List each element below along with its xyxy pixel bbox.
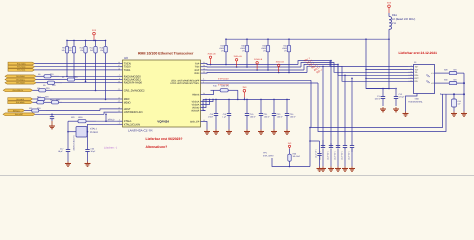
wire R12 to net row bbox=[85, 59, 87, 81]
ground under C17 bbox=[67, 162, 69, 164]
ic U0 left pin 12 MDC bbox=[118, 98, 123, 100]
ground under C23 bbox=[273, 130, 275, 132]
svg-text:10 pF 50 V: 10 pF 50 V bbox=[341, 150, 344, 160]
wire jack shield to ground bbox=[406, 94, 418, 112]
capacitor C18 1 µF decoupling bbox=[228, 99, 230, 113]
wire TP net up bbox=[309, 128, 311, 167]
wire R10 to net row bbox=[73, 59, 75, 79]
svg-text:R7: R7 bbox=[62, 76, 64, 79]
svg-text:2: 2 bbox=[203, 80, 204, 83]
port PHY-RXD0 bbox=[5, 75, 36, 78]
wire analog 3V3 bus from ferrite bbox=[226, 38, 389, 40]
svg-text:3: 3 bbox=[203, 78, 204, 81]
capacitor C25 100 nF decoupling bbox=[286, 99, 288, 113]
ground under C20 bbox=[87, 162, 89, 164]
ic U0 left pin 10 RXER/PHYAD0 bbox=[118, 82, 123, 84]
wire TXP row bbox=[206, 64, 299, 65]
svg-text:PHY-nRST: PHY-nRST bbox=[15, 113, 23, 116]
capacitor C17 18pF bbox=[67, 147, 69, 150]
resistor R22 49R9 termination bbox=[267, 39, 269, 45]
ic U0 left pin 13 MDIO bbox=[118, 101, 123, 103]
wire pull-up bank bus bbox=[67, 39, 106, 41]
ground right of C29 bbox=[463, 112, 465, 114]
wire TXD1 to U0 bbox=[35, 69, 118, 71]
ground under C19 bbox=[246, 130, 248, 132]
svg-text:Alternativen?: Alternativen? bbox=[146, 145, 168, 149]
svg-text:RBIAS: RBIAS bbox=[192, 94, 199, 97]
wire R16 to net row bbox=[105, 59, 107, 99]
svg-text:PHY-RXER: PHY-RXER bbox=[16, 82, 25, 85]
svg-text:18 pF: 18 pF bbox=[91, 150, 97, 153]
svg-text:VDD2A: VDD2A bbox=[192, 104, 200, 107]
resistor R19 49R9 termination bbox=[225, 39, 227, 45]
resistor R26 10k DNP bbox=[289, 149, 291, 154]
svg-text:20: 20 bbox=[203, 64, 205, 67]
wire TXN row bbox=[206, 66, 302, 68]
svg-text:18: 18 bbox=[118, 67, 120, 70]
ic U0 right pin 19 RXP bbox=[201, 69, 206, 71]
wire R26 to TP net bbox=[289, 166, 291, 168]
capacitor C29 1nF 2kV bbox=[453, 94, 455, 99]
ic U0 left pin 11 CRS_DV/MODE2 bbox=[118, 89, 123, 91]
svg-text:17: 17 bbox=[118, 64, 120, 67]
svg-text:470 pF: 470 pF bbox=[399, 96, 406, 99]
resistor R15 12k1 1% RBIAS bbox=[211, 89, 221, 91]
ic U0 right pin 6 VDDCR bbox=[201, 110, 206, 112]
ic U0 right pin 2 LED2 nINT/nPME/nEVTSEL bbox=[201, 82, 206, 84]
svg-text:U0: U0 bbox=[124, 56, 128, 60]
svg-text:2 A: 2 A bbox=[392, 22, 396, 25]
wire VDD bus bbox=[203, 98, 290, 100]
wire MDC jog to U0 bbox=[50, 98, 118, 100]
ground under C25 bbox=[286, 130, 288, 132]
port PHY-RXER bbox=[5, 81, 36, 84]
wire xtal row to U0 XTAL1 bbox=[96, 120, 118, 122]
resistor R8 10k pull-up bbox=[66, 40, 68, 46]
ic U0 right pin 21 TXP bbox=[201, 63, 206, 65]
ground jack shield bbox=[405, 112, 407, 114]
wire LED2 loop down-right-up bbox=[318, 83, 446, 132]
svg-text:REFCLK: REFCLK bbox=[13, 109, 21, 112]
connector J4 led arrows bbox=[426, 75, 430, 78]
ic U0 right pin 20 TXN bbox=[201, 66, 206, 68]
connector J4 pin 3 TD- bbox=[408, 71, 414, 73]
svg-text:PHY-TXD0: PHY-TXD0 bbox=[17, 66, 25, 69]
wire nRST jog to U0 nINT pin bbox=[104, 112, 118, 114]
ground under C29 bbox=[453, 112, 455, 114]
wire R22 to line bbox=[267, 58, 269, 70]
svg-text:3V3A-LB: 3V3A-LB bbox=[276, 61, 285, 64]
svg-text:R30: R30 bbox=[444, 79, 447, 82]
svg-text:LED2 nINT/nPME/nEVTSEL: LED2 nINT/nPME/nEVTSEL bbox=[170, 82, 200, 85]
resistor R12 10k pull-up bbox=[85, 40, 87, 46]
wire GND_EP down bbox=[206, 122, 208, 130]
wire VDDIO to bus bbox=[205, 99, 208, 107]
wire TXN to jack TD- bbox=[301, 63, 408, 73]
svg-text:RMII 10/100 Ethernet Transceiv: RMII 10/100 Ethernet Transceiver bbox=[138, 51, 194, 55]
svg-text:VDDCR: VDDCR bbox=[191, 110, 200, 113]
wire MDIO jog to U0 bbox=[62, 101, 118, 103]
svg-text:100 nF: 100 nF bbox=[375, 98, 382, 101]
connector J4 body bbox=[414, 65, 435, 94]
ferrite/resistor on MDIO bbox=[48, 101, 52, 103]
wire R8 to net row bbox=[66, 59, 68, 76]
svg-text:10k: 10k bbox=[100, 49, 103, 52]
ground under cap bank 1 bbox=[322, 149, 324, 167]
svg-text:L0 (Bead 100 MHz): L0 (Bead 100 MHz) bbox=[392, 18, 415, 21]
ground under C21 bbox=[260, 130, 262, 132]
svg-text:ETH-LED1: ETH-LED1 bbox=[218, 78, 229, 81]
svg-text:10: 10 bbox=[118, 80, 120, 83]
svg-text:100 nF: 100 nF bbox=[264, 116, 271, 119]
wire TXD0 to U0 bbox=[35, 66, 118, 68]
svg-text:GND_EP: GND_EP bbox=[190, 121, 200, 124]
svg-text:16: 16 bbox=[118, 61, 120, 64]
connector J4 pin 4 RD+ bbox=[408, 74, 414, 76]
resistor R5 33R series RXD0 bbox=[36, 75, 44, 77]
wire TXP to jack TD+ bbox=[298, 61, 408, 67]
svg-text:15: 15 bbox=[118, 106, 120, 109]
svg-text:12k1 1%: 12k1 1% bbox=[221, 85, 229, 88]
svg-text:22: 22 bbox=[203, 71, 205, 74]
capacitor C6 10pF on TD- bbox=[330, 61, 332, 146]
resistor R24 49R9 termination bbox=[288, 39, 290, 45]
wire TCT center tap bbox=[366, 68, 408, 70]
svg-text:PHY-MDIO: PHY-MDIO bbox=[16, 101, 25, 104]
svg-text:PHY-RXD1: PHY-RXD1 bbox=[16, 78, 24, 81]
svg-text:10 pF 50 V: 10 pF 50 V bbox=[327, 150, 330, 160]
wire crystal right electrode bbox=[86, 131, 89, 133]
wire analog node down bbox=[388, 39, 390, 88]
port PHY-MDC bbox=[8, 98, 33, 101]
wire TP1 net bbox=[272, 158, 310, 167]
svg-text:R17: R17 bbox=[50, 99, 53, 102]
svg-text:RXER/PHYAD0: RXER/PHYAD0 bbox=[124, 82, 143, 85]
capacitor C23 100 nF decoupling bbox=[273, 99, 275, 113]
capacitor C20 18pF bbox=[87, 147, 89, 150]
svg-text:PHY-MDC: PHY-MDC bbox=[16, 98, 25, 101]
ground under C15 bbox=[51, 124, 53, 126]
svg-text:8: 8 bbox=[119, 77, 120, 80]
wire R15 down to VDD bus bbox=[237, 90, 239, 99]
capacitor C16 470nF decoupling bbox=[215, 99, 217, 113]
wire VDDCR to bus bbox=[203, 99, 206, 110]
svg-text:25 MHz: 25 MHz bbox=[90, 131, 99, 134]
ground under C27 bbox=[319, 167, 321, 169]
wire REFCLK down to xtal row bbox=[105, 114, 107, 121]
svg-text:3V3A-LB: 3V3A-LB bbox=[254, 58, 263, 61]
svg-text:TXD1: TXD1 bbox=[124, 69, 131, 72]
svg-text:RXN: RXN bbox=[194, 72, 199, 75]
svg-text:TXP: TXP bbox=[195, 63, 200, 66]
capacitor C9 10pF spare bbox=[351, 78, 353, 145]
port PHY-RXD1 bbox=[5, 78, 36, 81]
svg-text:FB1: FB1 bbox=[392, 14, 397, 17]
ground under cap bank 5 bbox=[351, 149, 353, 167]
svg-text:VDD1A: VDD1A bbox=[192, 101, 200, 104]
svg-text:PHY-CRS-DV: PHY-CRS-DV bbox=[13, 89, 24, 92]
svg-text:XTAL2/CLKIN: XTAL2/CLKIN bbox=[124, 123, 140, 126]
wire LED2 row bbox=[206, 82, 319, 84]
svg-text:10k: 10k bbox=[62, 49, 65, 52]
svg-text:10 µF 16 V: 10 µF 16 V bbox=[315, 148, 318, 158]
svg-text:10 pF 50 V: 10 pF 50 V bbox=[334, 150, 337, 160]
ic U0 right pin 3 LED1 nINT/nPME/REGOFF bbox=[201, 79, 206, 81]
wire analog feed down bbox=[366, 39, 395, 88]
svg-text:11: 11 bbox=[118, 88, 120, 91]
svg-text:MDIO: MDIO bbox=[124, 101, 131, 104]
capacitor C27 10uF bbox=[319, 141, 321, 154]
junction power flag on bank bus bbox=[93, 40, 95, 42]
wire R20 to line bbox=[246, 58, 248, 67]
wire R24 to line bbox=[288, 58, 290, 73]
wire RXD1 segments bbox=[36, 79, 60, 81]
ic U0 right pin 1 VDD2A bbox=[201, 104, 206, 106]
ic U0 left pin 18 TXD1 bbox=[118, 69, 123, 71]
sheet frame bottom edge bbox=[0, 175, 474, 177]
wire bob-smith vertical bbox=[463, 73, 465, 111]
svg-text:19: 19 bbox=[203, 67, 205, 70]
svg-text:RXP: RXP bbox=[195, 69, 200, 72]
resistor R30 75R bbox=[442, 82, 449, 84]
port PHY-TXD0 bbox=[8, 65, 35, 68]
port PHY-TXEN bbox=[8, 62, 35, 65]
resistor R10 10k pull-up bbox=[73, 40, 75, 46]
capacitor C15 100nF on nRST row bbox=[51, 114, 53, 116]
svg-text:R9: R9 bbox=[43, 84, 45, 87]
resistor R13 33R series MDC bbox=[33, 98, 38, 100]
svg-text:R11: R11 bbox=[37, 87, 40, 90]
ic U0 right pin 22 RXN bbox=[201, 72, 206, 74]
svg-text:LAN8742A-CZ-TR: LAN8742A-CZ-TR bbox=[128, 128, 153, 132]
wire R19 to line bbox=[225, 58, 227, 65]
resistor R28 75R bbox=[442, 72, 449, 74]
wire RXP to jack RD+ bbox=[304, 64, 408, 75]
svg-text:CRS_DV/MODE2: CRS_DV/MODE2 bbox=[124, 89, 145, 92]
wire XTAL2 pin to crystal right bbox=[88, 124, 118, 147]
connector J4 led pin L1 bbox=[435, 72, 443, 74]
ground under C16 bbox=[215, 130, 217, 132]
svg-text:ABM8-25-B2X-T3: ABM8-25-B2X-T3 bbox=[73, 136, 76, 151]
svg-text:21: 21 bbox=[203, 61, 205, 64]
capacitor C11 100nF analog bbox=[382, 89, 384, 97]
svg-text:13: 13 bbox=[118, 100, 120, 103]
capacitor C5 10pF on TD+ bbox=[322, 66, 324, 145]
svg-text:LED1 nINT/nPME/REGOFF: LED1 nINT/nPME/REGOFF bbox=[171, 79, 200, 82]
wire RXER segments bbox=[36, 82, 40, 84]
connector J4 pin 5 RCT bbox=[408, 77, 414, 79]
wire REFCLK row bbox=[46, 110, 100, 112]
svg-text:10k DNP: 10k DNP bbox=[293, 155, 301, 158]
svg-text:2k2: 2k2 bbox=[90, 49, 93, 52]
svg-text:100R: 100R bbox=[78, 116, 83, 119]
ic U0 left pin 7 RXD0/MODE0 bbox=[118, 75, 123, 77]
ground under C13 bbox=[395, 107, 397, 109]
wire RXN row bbox=[206, 72, 308, 75]
resistor R14 2k2 pull-up bbox=[95, 40, 97, 46]
wire R14 to net row bbox=[95, 59, 97, 91]
capacitor C13 470pF analog bbox=[395, 89, 397, 97]
svg-text:5: 5 bbox=[119, 119, 120, 122]
svg-text:Löschen :-): Löschen :-) bbox=[104, 147, 117, 150]
capacitor C21 100 nF decoupling bbox=[260, 99, 262, 113]
port PHY-TXD1 bbox=[8, 69, 35, 72]
svg-text:VDDIO: VDDIO bbox=[192, 107, 199, 110]
ground under cap bank 4 bbox=[344, 149, 346, 167]
wire RCT center tap bbox=[366, 77, 408, 79]
ferrite bead FB1 coil bbox=[388, 13, 390, 17]
svg-text:R13: R13 bbox=[37, 96, 40, 99]
wire LED1 row bbox=[206, 79, 312, 81]
svg-text:1%: 1% bbox=[242, 49, 245, 52]
svg-text:10k: 10k bbox=[69, 49, 72, 52]
svg-text:1%: 1% bbox=[284, 49, 287, 52]
ground GND_EP bbox=[206, 130, 208, 132]
ic U0 left pin 14 nINT/REFCLKO bbox=[118, 111, 123, 113]
wire RXP row bbox=[206, 69, 305, 71]
svg-text:R21: R21 bbox=[29, 107, 32, 110]
ic U0 right pin 24 RBIAS bbox=[201, 94, 206, 96]
wire TXEN to U0 bbox=[35, 63, 118, 65]
svg-text:RD-: RD- bbox=[415, 80, 419, 83]
svg-text:PHY-TXD1: PHY-TXD1 bbox=[17, 69, 25, 72]
svg-text:R23: R23 bbox=[71, 116, 74, 119]
svg-text:1%: 1% bbox=[221, 49, 224, 52]
connector J4 pin 2 TCT bbox=[408, 68, 414, 70]
ic U0 right pin 25 GND_EP bbox=[201, 121, 206, 123]
wire RBIAS from U0 bbox=[206, 90, 214, 94]
resistor R23 100R on xtal row bbox=[68, 120, 78, 122]
svg-text:100 nF: 100 nF bbox=[250, 116, 257, 119]
connector J4 pin 6 RD- bbox=[408, 80, 414, 82]
resistor R7 33R series RXD1 bbox=[60, 79, 68, 81]
resistor R11 33R series CRS_DV bbox=[33, 89, 39, 91]
wire nRST row bbox=[35, 113, 104, 115]
wire CRS_DV jog to U0 bbox=[52, 89, 118, 91]
svg-text:L1: L1 bbox=[431, 72, 433, 75]
resistor R21 33R series REFCLK bbox=[25, 110, 32, 112]
svg-text:10k: 10k bbox=[80, 49, 83, 52]
wire crystal left electrode bbox=[68, 131, 76, 133]
svg-text:25: 25 bbox=[203, 119, 205, 122]
svg-text:14: 14 bbox=[118, 110, 120, 113]
svg-text:Lieferbar erst 06/2023?: Lieferbar erst 06/2023? bbox=[146, 137, 183, 141]
port PHY-REFCLK bbox=[8, 109, 25, 112]
resistor R16 10k pull-up bbox=[105, 40, 107, 46]
wire REFCLK jog to U0 nRST pin bbox=[100, 109, 118, 111]
wire RXN to jack RD- bbox=[307, 66, 408, 81]
svg-text:7: 7 bbox=[119, 74, 120, 77]
svg-text:TXN: TXN bbox=[195, 66, 200, 69]
svg-text:XTAL1: XTAL1 bbox=[90, 127, 98, 130]
svg-text:10 pF 50 V: 10 pF 50 V bbox=[348, 150, 351, 160]
ic U0 left pin 4 XTAL2/CLKIN bbox=[118, 123, 123, 125]
svg-text:100 nF: 100 nF bbox=[290, 116, 297, 119]
svg-text:1%: 1% bbox=[263, 49, 266, 52]
ic U0 left pin 15 nRST bbox=[118, 108, 123, 110]
connector J4 pin 1 TD+ bbox=[408, 65, 414, 67]
wire LED1 loop down-right-up bbox=[311, 80, 443, 127]
resistor R20 49R9 termination bbox=[246, 39, 248, 45]
capacitor C19 100 nF decoupling bbox=[246, 99, 248, 113]
ground under C18 bbox=[228, 130, 230, 132]
wire VDD2A to bus bbox=[206, 99, 210, 104]
svg-text:TD-: TD- bbox=[415, 71, 419, 74]
wire xtal row down to crystal bbox=[67, 121, 69, 147]
svg-text:PHY-RXD0: PHY-RXD0 bbox=[16, 75, 24, 78]
port PHY-MDIO bbox=[8, 101, 33, 104]
ic U0 left pin 17 TXD0 bbox=[118, 66, 123, 68]
svg-text:TRJK0926HENL: TRJK0926HENL bbox=[408, 101, 424, 104]
svg-text:3V3A-LB: 3V3A-LB bbox=[207, 53, 216, 56]
svg-text:12: 12 bbox=[118, 96, 120, 99]
ic U0 right pin 23 VDD1A bbox=[201, 101, 206, 103]
svg-text:R28: R28 bbox=[444, 69, 447, 72]
svg-text:ETH_nRST: ETH_nRST bbox=[263, 155, 274, 158]
port PHY-CRS-DV bbox=[3, 89, 32, 92]
ground under C11 bbox=[382, 107, 384, 109]
ic U0 left pin 8 RXD1/MODE1 bbox=[118, 79, 123, 81]
wire ferrite to analog bus bbox=[388, 29, 390, 39]
svg-text:470nF: 470nF bbox=[208, 116, 214, 119]
svg-text:3V3A-LB: 3V3A-LB bbox=[234, 55, 243, 58]
svg-text:PHY-TXEN: PHY-TXEN bbox=[17, 62, 26, 65]
wire VDD1A to bus bbox=[206, 99, 214, 101]
svg-text:24: 24 bbox=[203, 92, 205, 95]
wire RXD0 to U0 bbox=[59, 75, 118, 77]
svg-text:nINT/REFCLKO: nINT/REFCLKO bbox=[124, 111, 143, 114]
capacitor C8 10pF on RD- bbox=[344, 75, 346, 145]
ic U0 left pin 16 TXEN bbox=[118, 63, 123, 65]
ic U0 left pin 5 XTAL1 bbox=[118, 120, 123, 122]
ground under cap bank 2 bbox=[330, 149, 332, 167]
ic U0 right pin 9 VDDIO bbox=[201, 107, 206, 109]
crystal Y1 25MHz body bbox=[76, 127, 87, 138]
ground under cap bank 3 bbox=[337, 149, 339, 167]
connector J4 led pin L2 bbox=[435, 82, 443, 84]
svg-text:L2: L2 bbox=[431, 82, 433, 85]
resistor R15a 33R series MDIO bbox=[33, 101, 37, 103]
svg-text:R5: R5 bbox=[38, 73, 40, 76]
ic U0 body bbox=[123, 60, 201, 127]
svg-text:18 pF: 18 pF bbox=[58, 150, 64, 153]
svg-text:Shld: Shld bbox=[415, 97, 419, 100]
svg-text:VQFN24: VQFN24 bbox=[157, 120, 169, 124]
wire shield line bbox=[441, 93, 465, 96]
port PHY-nRST bbox=[3, 113, 35, 116]
svg-text:4: 4 bbox=[119, 122, 120, 125]
svg-text:Lieferbar erst 24.12.2021: Lieferbar erst 24.12.2021 bbox=[399, 51, 438, 55]
resistor R9 33R series RXER bbox=[40, 82, 48, 84]
capacitor C7 10pF on RD+ bbox=[337, 64, 339, 145]
svg-text:100 nF: 100 nF bbox=[277, 116, 284, 119]
